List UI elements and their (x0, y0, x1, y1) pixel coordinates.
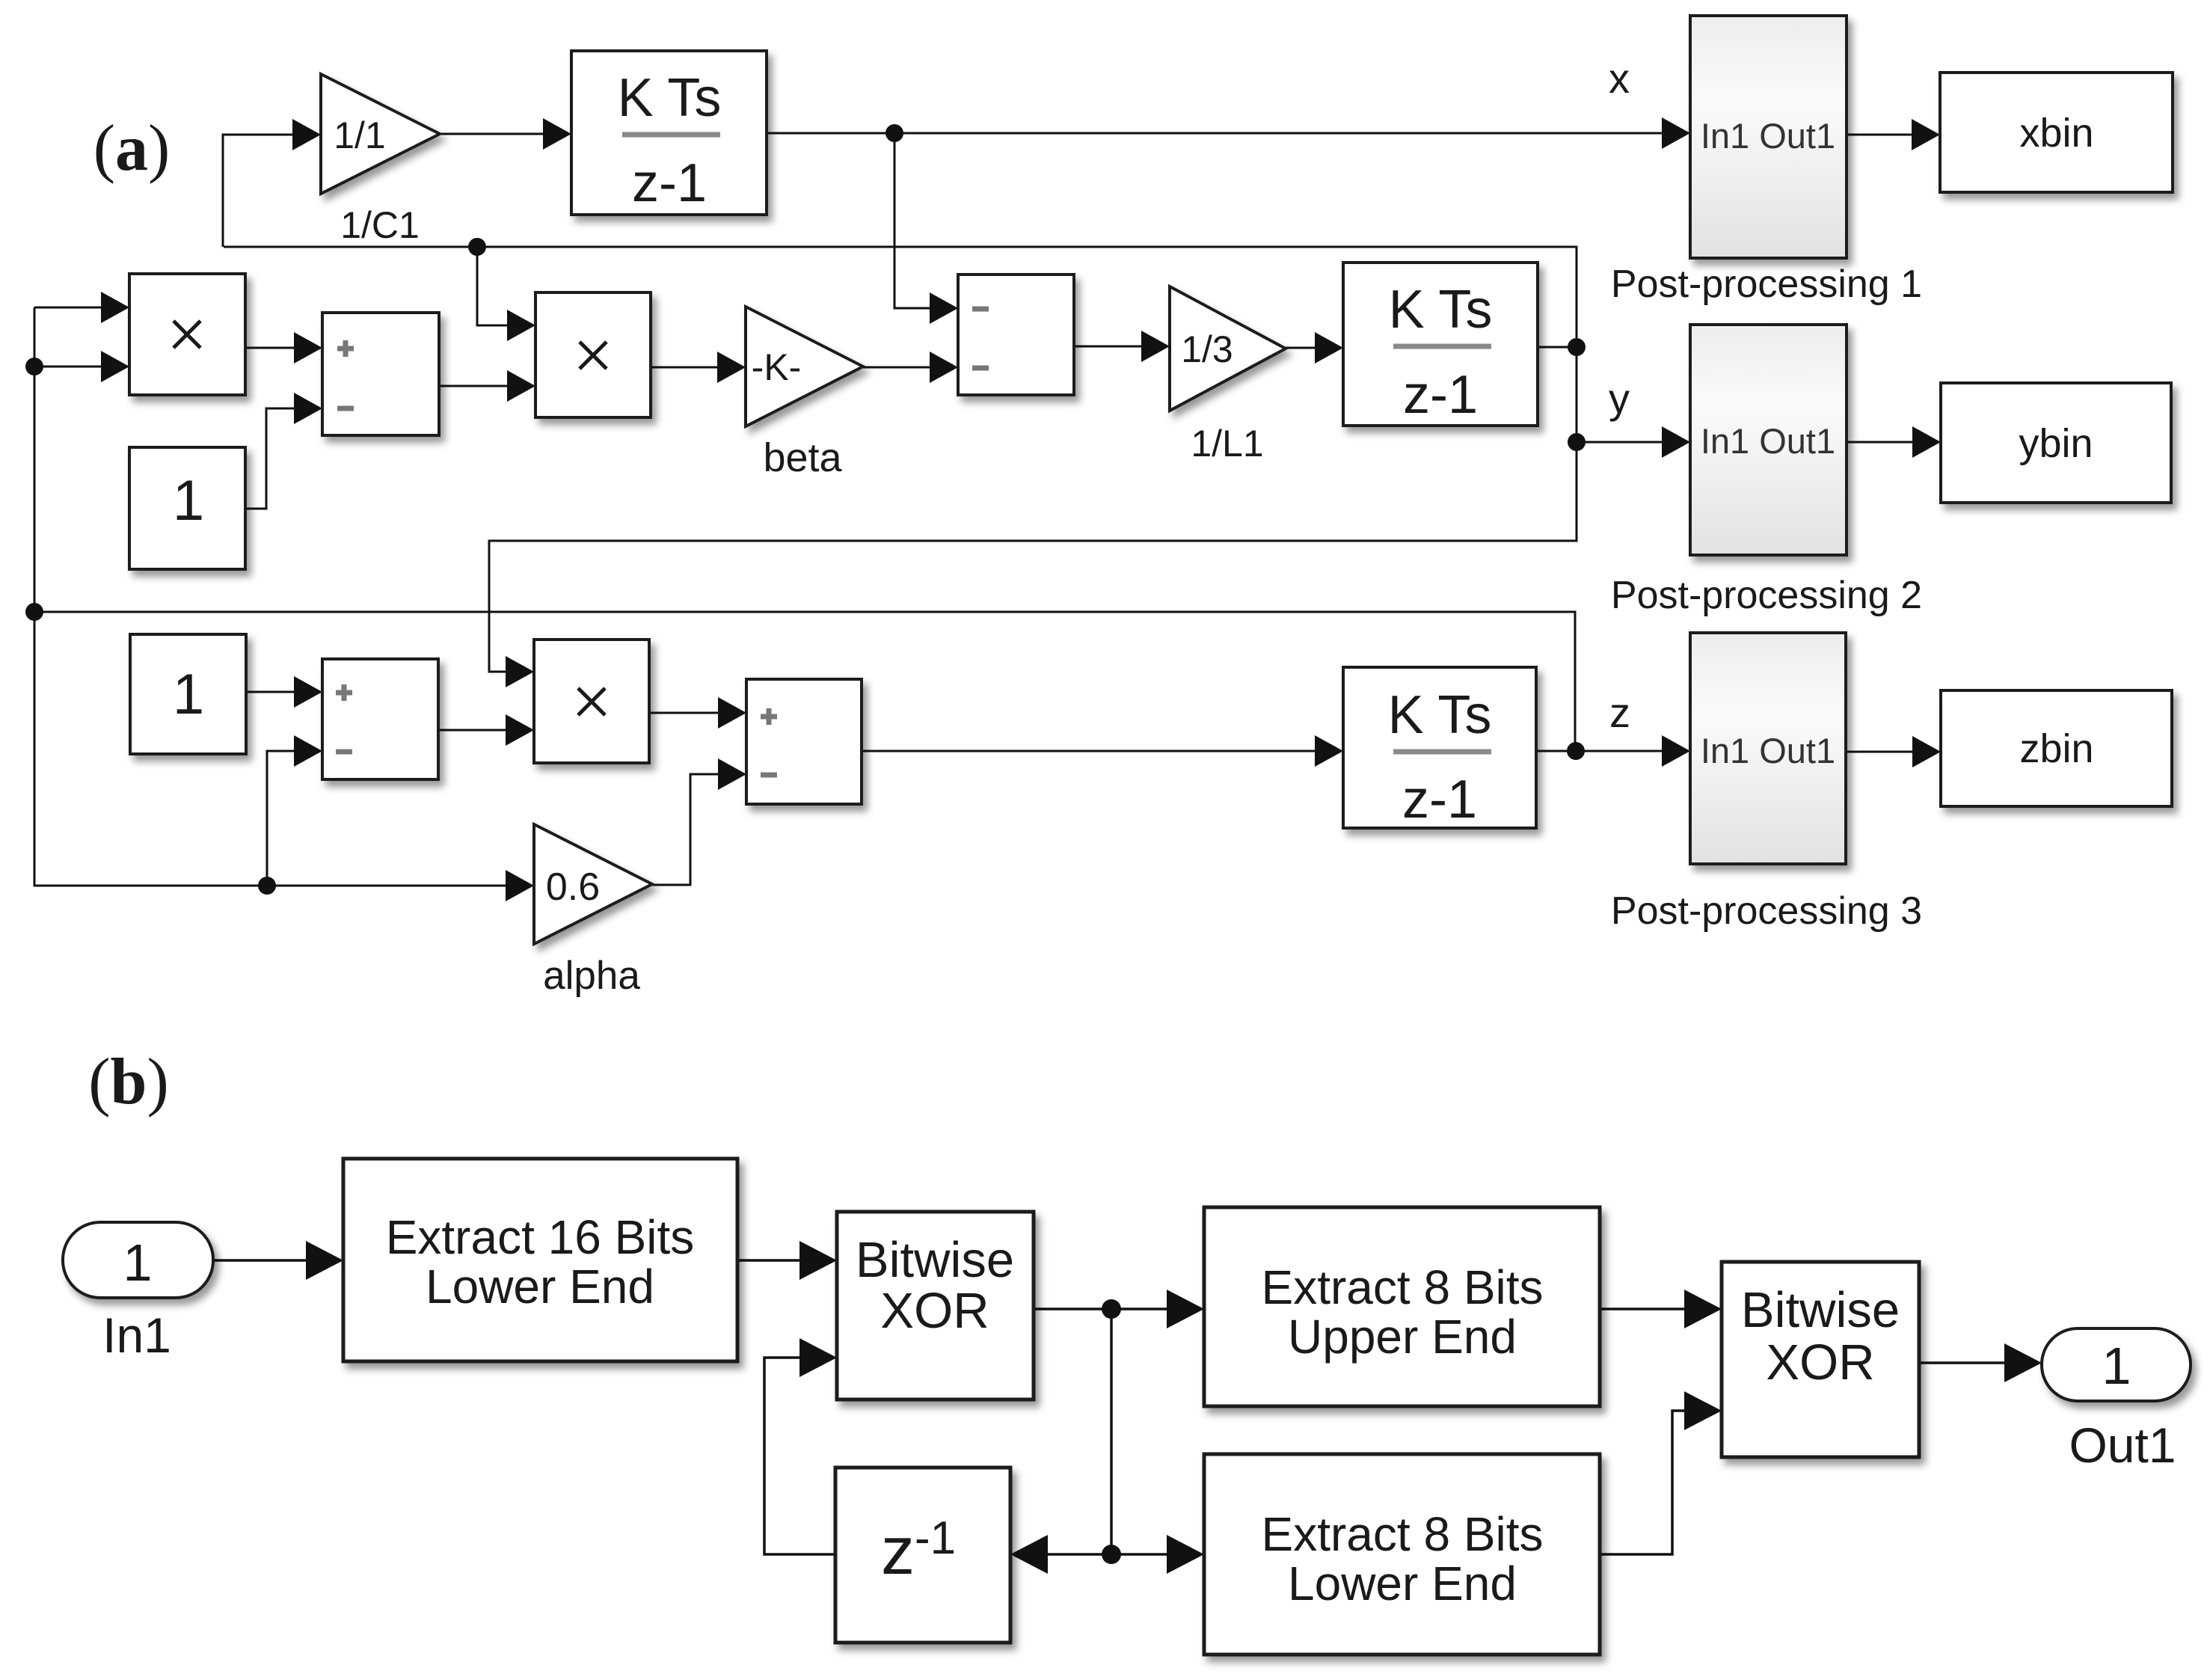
wire sum1 out to product2 in2 (439, 370, 535, 402)
junction delay feedback (1102, 1545, 1121, 1564)
svg-text:x: x (1609, 55, 1630, 102)
wire Post-processing 2 to ybin (1847, 426, 1941, 458)
svg-text:In1 Out1: In1 Out1 (1701, 116, 1835, 156)
svg-text:Out1: Out1 (2069, 1417, 2176, 1473)
junction z at integrator3 output (1567, 742, 1585, 760)
product1 (multiply) (129, 274, 245, 395)
integrator3 K Ts/(z-1) (1343, 667, 1536, 830)
block Bitwise XOR 1 (837, 1212, 1034, 1400)
svg-text:z-1: z-1 (1403, 365, 1478, 425)
svg-text:1/C1: 1/C1 (340, 204, 420, 246)
svg-text:-K-: -K- (752, 346, 802, 388)
wire integrator3 out to z junction (1536, 750, 1576, 752)
svg-text:ybin: ybin (2019, 421, 2093, 466)
svg-text:1: 1 (173, 469, 204, 533)
wire integrator2 out to y junction (1538, 346, 1577, 349)
subtract3 (plus minus) (322, 659, 438, 779)
wire y vertical down and across to product3 in1 (489, 347, 1577, 687)
gain alpha (0.6 triangle) (534, 824, 652, 944)
wire Extract 8 Bits Lower to Bitwise XOR2 in2 (1600, 1391, 1722, 1554)
integrator1 K Ts/(z-1) (571, 51, 767, 215)
junction y to Post-processing 2 (1568, 433, 1586, 451)
wire junction to Extract 8 Bits Lower (1111, 1535, 1204, 1574)
wire gain 1/C1 output to integrator1 (440, 118, 571, 150)
wire Extract 8 Bits Upper to Bitwise XOR2 (1600, 1290, 1722, 1328)
gain beta (-K-) (746, 307, 863, 426)
sink xbin (1940, 73, 2173, 192)
block unit delay z^-1 (835, 1468, 1010, 1643)
outport Out1 oval (2042, 1328, 2191, 1401)
gain 1/L1 (1/3 triangle) (1170, 286, 1286, 411)
svg-text:Bitwise: Bitwise (856, 1232, 1014, 1288)
svg-text:1: 1 (173, 663, 204, 726)
product2 (multiply) (535, 292, 651, 417)
wire product1 out to sum1 in1 (245, 332, 322, 364)
svg-text:xbin: xbin (2019, 111, 2093, 156)
junction z vertical at z-line (25, 603, 43, 621)
svg-text:Extract 16 Bits: Extract 16 Bits (386, 1210, 695, 1264)
wire Extract 16 Bits to Bitwise XOR1 (737, 1241, 837, 1280)
junction 1/C1 line at x=638 (468, 238, 486, 256)
svg-text:1/3: 1/3 (1181, 328, 1233, 370)
junction z vertical at product1 in2 (25, 358, 43, 375)
svg-text:Extract 8 Bits: Extract 8 Bits (1262, 1507, 1544, 1561)
wire XOR1 output branch down (1110, 1309, 1113, 1554)
wire product3 out to sum4 in1 (649, 697, 746, 729)
sum4 (plus minus) (746, 679, 862, 804)
svg-text:Post-processing 2: Post-processing 2 (1611, 574, 1922, 617)
product3 (multiply) (534, 640, 649, 763)
svg-text:In1 Out1: In1 Out1 (1701, 421, 1835, 461)
svg-text:y: y (1609, 375, 1630, 422)
wire junction to unit delay input (leftward) (1010, 1535, 1111, 1574)
wire x signal integrator1 to Post-processing 1 (767, 117, 1690, 149)
wire constant1 row3 to subtract3 plus input (246, 676, 322, 708)
wire Post-processing 3 to zbin (1846, 736, 1941, 767)
block Bitwise XOR 2 (1722, 1262, 1919, 1457)
junction x signal (885, 124, 903, 142)
svg-text:(b): (b) (88, 1046, 169, 1118)
svg-text:zbin: zbin (2019, 726, 2093, 771)
junction alpha line to subtract3 (258, 877, 276, 895)
wire z line from left vertical to z junction (34, 612, 1575, 751)
sink ybin (1941, 383, 2171, 503)
gain 1/C1 (1/1 triangle) (321, 74, 440, 194)
sum1 (plus minus) (322, 313, 439, 435)
svg-text:In1: In1 (102, 1307, 171, 1363)
svg-text:z-1: z-1 (632, 153, 707, 213)
wire gain beta to subtract2 in2 (863, 352, 958, 383)
wire Bitwise XOR1 output to Extract 8 Bits Upper (1034, 1290, 1204, 1328)
wire gain alpha out up to sum4 minus input (652, 758, 746, 885)
svg-text:Extract 8 Bits: Extract 8 Bits (1262, 1260, 1544, 1314)
wire sum4 out to integrator3 (862, 735, 1343, 767)
svg-text:K Ts: K Ts (1389, 280, 1493, 340)
svg-text:(a): (a) (93, 112, 171, 185)
junction y at integrator2 output (1568, 338, 1586, 356)
constant 1 (row2) (129, 447, 245, 569)
svg-text:Upper End: Upper End (1288, 1310, 1517, 1364)
wire 1/C1 feedback horizontal run (224, 247, 1577, 338)
svg-text:0.6: 0.6 (546, 865, 600, 909)
wire subtract2 out to gain 1/L1 (1074, 331, 1170, 362)
svg-text:alpha: alpha (543, 954, 640, 998)
svg-text:z-1: z-1 (1402, 770, 1477, 830)
junction XOR1 output (1102, 1299, 1121, 1319)
wire z to Post-processing 3 (1576, 735, 1690, 767)
wire y-feedback 1/C1 line to gain input (223, 119, 321, 247)
svg-text:XOR: XOR (1766, 1334, 1874, 1391)
block Extract 8 Bits Upper End (1204, 1207, 1600, 1406)
subsystem Post-processing 3 (1690, 633, 1846, 864)
svg-text:1: 1 (123, 1233, 153, 1292)
constant 1 (row3) (130, 634, 246, 754)
inport In1 oval (63, 1222, 213, 1298)
wire In1 to Extract 16 Bits (213, 1241, 343, 1280)
svg-text:Post-processing 3: Post-processing 3 (1611, 889, 1922, 933)
svg-text:Post-processing 1: Post-processing 1 (1611, 263, 1922, 306)
svg-text:Lower End: Lower End (1288, 1557, 1517, 1610)
wire gain 1/L1 to integrator2 (1286, 332, 1343, 364)
wire z distribution vertical run (34, 307, 506, 886)
svg-text:K Ts: K Ts (618, 68, 722, 128)
svg-text:z: z (1609, 689, 1630, 736)
wire unit delay output loop to XOR1 in2 (764, 1338, 837, 1554)
wire Post-processing 1 to xbin (1847, 119, 1940, 150)
wire x branch down to subtract2 in1 (894, 134, 958, 324)
svg-text:K Ts: K Ts (1388, 685, 1492, 745)
wire alpha-line branch up to subtract3 minus input (267, 735, 322, 886)
wire product2 out to gain beta (651, 352, 746, 383)
subsystem Post-processing 2 (1690, 325, 1847, 555)
svg-text:Lower End: Lower End (426, 1260, 654, 1313)
svg-text:1/L1: 1/L1 (1191, 423, 1263, 465)
sink zbin (1941, 690, 2172, 806)
wire y to Post-processing 2 (1577, 426, 1690, 458)
block Extract 16 Bits Lower End (343, 1159, 737, 1361)
wire z distribution vertical to product1 in1 (34, 292, 129, 323)
wire subtract3 out to product3 in2 (438, 714, 534, 746)
integrator2 K Ts/(z-1) (1343, 263, 1538, 426)
subsystem Post-processing 1 (1690, 16, 1847, 258)
wire constant1 row2 to sum1 minus input (245, 393, 322, 509)
svg-text:In1 Out1: In1 Out1 (1701, 731, 1835, 770)
svg-text:Bitwise: Bitwise (1741, 1282, 1900, 1338)
svg-text:XOR: XOR (880, 1283, 989, 1339)
wire Bitwise XOR2 to Out1 (1919, 1343, 2042, 1382)
wire from 1/C1 junction down to product2 in1 (477, 248, 535, 341)
svg-text:beta: beta (763, 435, 842, 480)
svg-text:1/1: 1/1 (334, 114, 386, 156)
subtract2 (minus minus) (958, 275, 1074, 395)
arrow into gain alpha (506, 870, 534, 901)
wire junction to product1 in2 (34, 351, 129, 382)
svg-text:1: 1 (2102, 1337, 2131, 1395)
block Extract 8 Bits Lower End (1204, 1454, 1600, 1655)
